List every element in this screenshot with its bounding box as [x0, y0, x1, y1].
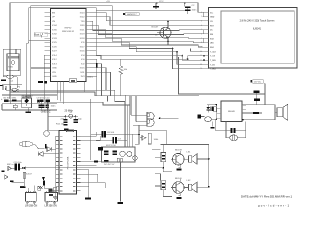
svg-text:MCP1700: MCP1700 — [106, 145, 117, 147]
ground bar Q3 — [179, 195, 181, 197]
U1 right pin name labels — [80, 12, 86, 78]
wire top rail 2 — [31, 6, 113, 98]
wires opto cluster — [207, 105, 217, 120]
bottom annotation texts — [118, 162, 293, 208]
small striped part — [48, 189, 52, 193]
svg-text:C6 104: C6 104 — [107, 132, 115, 134]
svg-text:100n: 100n — [51, 106, 57, 108]
regulator body — [7, 54, 19, 71]
speaker icon S2 — [189, 184, 192, 190]
relay left pin stubs — [217, 108, 221, 119]
svg-text:AMS1117: AMS1117 — [127, 13, 137, 16]
svg-text:LS1: LS1 — [187, 152, 192, 154]
svg-text:GND/1 C: GND/1 C — [41, 110, 51, 113]
wire power rows — [2, 101, 57, 110]
svg-text:IO19: IO19 — [80, 34, 86, 36]
svg-text:WROOM-32: WROOM-32 — [62, 31, 75, 33]
wire pin2 tick — [202, 12, 204, 42]
svg-text:VP: VP — [52, 17, 55, 19]
fuse oval F1 — [7, 75, 14, 78]
svg-text:BD139: BD139 — [175, 150, 182, 152]
svg-text:T_IRQ: T_IRQ — [210, 69, 216, 71]
svg-text:4: 4 — [201, 25, 202, 27]
op-amp DIP B — [45, 193, 58, 202]
wire left pin14 drop — [43, 55, 45, 102]
svg-text:IO27: IO27 — [52, 51, 58, 53]
relay and speaker section — [198, 79, 288, 140]
svg-text:GND: GND — [52, 76, 57, 78]
svg-text:IO13: IO13 — [52, 63, 58, 65]
mic jack arrow 2 — [5, 175, 8, 179]
svg-text:RELAY: RELAY — [228, 110, 236, 113]
svg-text:D5 1N4007: D5 1N4007 — [22, 96, 34, 98]
svg-text:14: 14 — [200, 68, 202, 70]
capacitor pair mid C11 — [102, 131, 104, 138]
svg-text:IO33: IO33 — [52, 38, 58, 40]
ground U2 left — [55, 191, 57, 197]
power input row — [1, 82, 65, 126]
module box B1 — [102, 147, 136, 162]
wire drops from U1 bottom to power row — [58, 82, 64, 104]
voltage regulator outer box — [3, 49, 20, 75]
svg-text:LM 358 GN: LM 358 GN — [25, 205, 37, 208]
svg-text:ESP32: ESP32 — [65, 28, 73, 30]
IC U2 vertical DIP — [59, 130, 76, 194]
svg-text:B1 9V: B1 9V — [4, 98, 10, 100]
op-amp U1 main MCU box — [51, 9, 87, 82]
svg-text:RX0: RX0 — [80, 25, 85, 27]
svg-text:SCK: SCK — [210, 38, 215, 40]
svg-text:IO14: IO14 — [52, 55, 58, 57]
svg-text:SDI: SDI — [210, 34, 214, 36]
capacitor C6 pair — [185, 6, 190, 8]
svg-text:MIC in: MIC in — [7, 164, 14, 166]
ground mic — [10, 181, 13, 183]
wire mid bus — [6, 86, 199, 147]
resistor box — [214, 107, 217, 112]
svg-text:IO12: IO12 — [52, 59, 58, 61]
speaker LS3 — [277, 108, 283, 117]
ground bar Q2 — [179, 167, 181, 169]
wire drop right of U1 bottom — [83, 82, 85, 92]
svg-text:12V DC: 12V DC — [254, 82, 262, 84]
diode D down — [207, 107, 210, 109]
gate U4B — [147, 119, 154, 127]
svg-text:EN: EN — [52, 12, 55, 14]
capacitor C13 — [231, 128, 233, 133]
junction node — [138, 134, 140, 136]
svg-text:2: 2 — [201, 16, 202, 18]
svg-text:T_CS: T_CS — [210, 56, 216, 58]
svg-text:IO21: IO21 — [80, 29, 86, 31]
mic jack arrow 1 — [8, 166, 11, 170]
top right caps — [254, 90, 260, 93]
capacitor blob C3 — [1, 80, 6, 82]
lower-left audio section — [2, 142, 164, 208]
svg-text:IO16: IO16 — [80, 51, 86, 53]
diode D6 — [47, 147, 52, 152]
svg-text:12: 12 — [200, 60, 202, 62]
regulator U3 block — [0, 49, 57, 98]
svg-text:13: 13 — [200, 64, 202, 66]
touch screen module TS1 outer box — [209, 8, 298, 69]
svg-text:IO2: IO2 — [81, 63, 85, 65]
svg-text:SDO: SDO — [210, 47, 215, 49]
wire U2 left rail — [55, 136, 57, 191]
svg-text:C9 470u: C9 470u — [37, 98, 46, 100]
arrow down part — [42, 177, 45, 181]
svg-text:SW1: SW1 — [12, 98, 18, 100]
svg-text:TX0: TX0 — [80, 21, 85, 23]
resistor R zigzag — [38, 186, 43, 188]
op-amp DIP A — [26, 193, 37, 202]
svg-text:IO15: IO15 — [80, 68, 86, 70]
second row caps — [13, 105, 17, 108]
svg-text:IO0: IO0 — [81, 59, 85, 61]
transistor Q5 small left of U2 — [44, 131, 50, 137]
svg-text:SD1: SD1 — [80, 72, 85, 74]
gate U4A — [147, 112, 154, 120]
svg-text:LM 358 GN: LM 358 GN — [45, 205, 57, 208]
node U1 left pin stubs — [45, 13, 51, 77]
connector jack J1 — [19, 142, 33, 147]
wire long vertical right — [179, 57, 266, 94]
svg-text:1: 1 — [201, 12, 202, 14]
small box part — [37, 100, 39, 103]
capacitor tick right of U1 — [96, 63, 98, 68]
junction node A — [156, 2, 158, 4]
svg-text:VN: VN — [52, 21, 55, 23]
relay box RL1 — [221, 101, 242, 122]
capacitor C5 black — [153, 6, 159, 8]
relay right pin stubs — [242, 105, 246, 113]
opto LED circle — [205, 117, 212, 122]
wires into regulator — [10, 49, 16, 54]
svg-text:IO35: IO35 — [52, 29, 58, 31]
wire mesh MCU to TS — [90, 11, 203, 96]
svg-text:10: 10 — [200, 51, 202, 53]
black bar vertical — [43, 180, 45, 185]
transistor Q1 — [160, 27, 171, 38]
transistor glyph Q6 — [140, 135, 146, 141]
verticals into B1 — [127, 96, 133, 147]
wire loop to speaker — [242, 105, 275, 120]
U2 right wires — [81, 132, 97, 136]
svg-text:ILI9341: ILI9341 — [253, 28, 262, 31]
svg-text:T_CLK: T_CLK — [210, 51, 217, 53]
svg-text:Boot 1: Boot 1 — [34, 33, 42, 36]
transistor Q3 — [173, 182, 185, 194]
capacitor CP2 — [161, 181, 166, 190]
wire cap runs — [91, 133, 139, 135]
wires audio — [26, 167, 164, 169]
diode D7 — [38, 152, 43, 157]
capacitor black bar — [20, 186, 26, 188]
capacitor C10 — [37, 100, 44, 102]
capacitor CP1 — [161, 153, 166, 162]
resistor R3 vertical zigzag — [119, 59, 123, 96]
U2 left pins — [56, 136, 60, 191]
svg-text:CS: CS — [210, 21, 213, 23]
top middle components — [106, 1, 197, 45]
svg-text:VCC: VCC — [159, 1, 164, 3]
svg-text:DC: DC — [210, 30, 213, 32]
svg-text:GND: GND — [210, 17, 215, 19]
label box L1 — [125, 12, 140, 15]
svg-text:5: 5 — [201, 29, 202, 31]
svg-text:T_DO: T_DO — [210, 64, 216, 66]
svg-text:7805: 7805 — [8, 67, 14, 69]
speaker icon S1 — [189, 156, 192, 162]
svg-text:PIC16F628A: PIC16F628A — [67, 156, 70, 169]
touch screen inner screen rect — [221, 11, 294, 63]
node TS pin junction dots — [203, 55, 204, 56]
diode oval — [230, 135, 238, 141]
svg-text:100n: 100n — [192, 9, 198, 11]
svg-text:IO5: IO5 — [81, 42, 85, 44]
svg-text:IO32: IO32 — [52, 34, 58, 36]
diode bridge box — [22, 98, 32, 108]
U1 labels — [29, 12, 128, 95]
svg-text:+5V: +5V — [106, 1, 110, 3]
svg-text:22p: 22p — [78, 119, 82, 121]
node mesh junction dots — [172, 48, 173, 49]
capacitor black blob left of U1 bottom — [45, 81, 47, 83]
capacitor bars — [211, 107, 212, 111]
svg-text:LED: LED — [210, 43, 214, 45]
svg-text:3: 3 — [201, 21, 202, 23]
mid-bottom IC2 section — [44, 95, 179, 200]
svg-text:u2: u2 — [11, 81, 14, 83]
svg-text:6: 6 — [201, 34, 202, 36]
svg-text:C2: C2 — [192, 5, 196, 7]
capacitor pair mid C12 — [112, 137, 114, 143]
svg-text:VIN: VIN — [52, 72, 56, 74]
ground symbol — [27, 108, 29, 112]
svg-text:F2: F2 — [18, 87, 21, 89]
svg-text:DC-DC 5V: DC-DC 5V — [104, 164, 115, 166]
gate output blob — [198, 115, 202, 119]
svg-text:IO22: IO22 — [80, 17, 86, 19]
svg-text:IO18: IO18 — [80, 38, 86, 40]
fuse oval F2 — [12, 88, 17, 91]
svg-text:IO25: IO25 — [52, 42, 58, 44]
svg-text:DATE:dd-MM-YY Rev:DD.MM.RR ver: DATE:dd-MM-YY Rev:DD.MM.RR ver.1 — [241, 194, 292, 198]
svg-text:T_DIN: T_DIN — [210, 60, 216, 62]
U2 right pins — [76, 136, 80, 191]
svg-text:IO23: IO23 — [80, 12, 86, 14]
junction ground blob — [85, 198, 91, 200]
svg-text:GND: GND — [52, 68, 57, 70]
svg-text:RST: RST — [210, 25, 215, 27]
label box top right — [252, 79, 264, 83]
wire power section — [2, 85, 57, 95]
transistor Q2 — [173, 153, 185, 165]
junction node B — [184, 2, 186, 4]
bottom right transistor stages — [152, 145, 210, 200]
crystal X1 at U1 bottom — [69, 79, 77, 83]
TS1 labels — [200, 12, 275, 71]
svg-text:11: 11 — [200, 55, 202, 57]
svg-text:100k: 100k — [154, 139, 160, 141]
svg-text:1k: 1k — [155, 35, 158, 37]
svg-text:IO17: IO17 — [80, 46, 86, 48]
svg-text:IO34: IO34 — [52, 25, 58, 27]
capacitor blob C4 — [0, 85, 4, 86]
wire boot pin rows — [29, 41, 51, 68]
svg-text:2.8 IN (240 X 320) Touch Scree: 2.8 IN (240 X 320) Touch Screen — [240, 20, 275, 23]
wire jog to regulator — [26, 41, 28, 98]
svg-text:C10: C10 — [45, 98, 50, 100]
svg-text:Vcc: Vcc — [210, 12, 213, 14]
svg-text:3V3: 3V3 — [81, 76, 86, 78]
svg-text:7: 7 — [201, 38, 202, 40]
relay bottom loop — [216, 119, 246, 138]
U1 left pin name labels — [52, 12, 58, 78]
arrowhead left — [23, 167, 26, 170]
svg-text:10k: 10k — [124, 69, 128, 71]
svg-text:BC547: BC547 — [152, 27, 159, 29]
battery B1 — [4, 100, 9, 103]
svg-text:8: 8 — [201, 42, 202, 44]
svg-text:IO4: IO4 — [81, 55, 85, 57]
wire stage top rail — [161, 145, 209, 187]
wire top rail 1 — [10, 3, 203, 99]
wire crystal — [48, 102, 78, 130]
U2 inner pin labels — [60, 136, 75, 191]
svg-text:IO26: IO26 — [52, 46, 58, 48]
ground bar bottom middle — [118, 202, 124, 204]
svg-text:LS2: LS2 — [187, 180, 192, 182]
capacitor row black — [12, 100, 16, 102]
svg-text:BD140: BD140 — [175, 178, 182, 180]
svg-text:GND1: GND1 — [87, 77, 94, 79]
node TS1 pin stubs — [203, 12, 209, 69]
svg-text:9: 9 — [201, 47, 202, 49]
resistor R vertical — [148, 133, 151, 144]
wire top rail 3 — [29, 8, 97, 56]
node U1 right pin stubs — [86, 13, 90, 77]
capacitor tick — [45, 144, 47, 148]
svg-text:gov-lcd-ver-1: gov-lcd-ver-1 — [258, 204, 289, 208]
boot label bracket — [34, 32, 47, 37]
wire gate inputs — [131, 115, 179, 125]
